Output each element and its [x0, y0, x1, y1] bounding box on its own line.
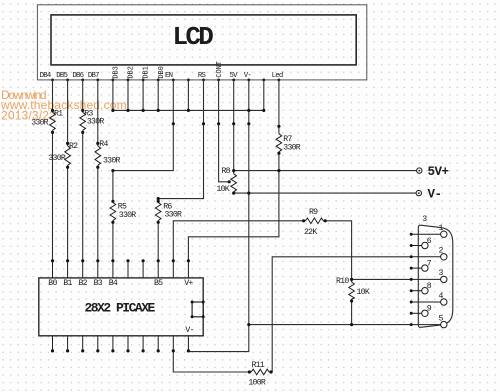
svg-text:B5: B5 [154, 279, 163, 288]
svg-text:DB1: DB1 [143, 66, 151, 78]
svg-text:B0: B0 [48, 279, 57, 288]
PICAXE bottom pin dots [51, 349, 190, 352]
wire R5 bottom to PICAXE B4 [112, 221, 114, 261]
svg-text:330R: 330R [31, 119, 48, 128]
resistor R5 330R [110, 203, 116, 221]
wire ground line V- to DB9 pin5 [249, 324, 411, 326]
resistor R11 100R [251, 369, 269, 375]
svg-text:B2: B2 [79, 279, 88, 288]
wire R7 bottom to 5V rail junction [278, 152, 280, 171]
watermark text [0, 88, 127, 122]
LCD pin labels DB4 DB5 DB6 DB7 [40, 72, 100, 80]
svg-text:R8: R8 [222, 167, 231, 176]
svg-text:R11: R11 [252, 361, 265, 370]
PICAXE bottom pin stubs [53, 336, 189, 351]
wire PICAXE bottom serial pin down to R11 [173, 351, 251, 372]
wire DB2 pin down to ground rail [127, 80, 129, 111]
wire RS pin down, left, to R6 [158, 80, 203, 203]
resistor R8 10K [231, 174, 237, 193]
svg-text:LCD: LCD [173, 22, 214, 52]
svg-text:CONT: CONT [216, 61, 224, 77]
wire R9 right to R10 top corner [323, 221, 351, 282]
R5 R6 pin-end dots [111, 197, 159, 224]
wire 5V rail down to PICAXE V+ pin [188, 171, 279, 261]
resistor R4 330R [95, 146, 101, 165]
R11 pin-end dots [248, 370, 273, 373]
connector J3 DB9 shell [418, 215, 453, 327]
wire CONT pin down and right to R8 [219, 80, 231, 182]
svg-text:5V+: 5V+ [428, 165, 449, 179]
svg-text:B4: B4 [109, 279, 118, 288]
LCD pin connection dots on box bottom edge [51, 79, 280, 82]
DB9 pin 8 [422, 282, 432, 294]
DB9 pin 4 [439, 292, 447, 305]
svg-text:10K: 10K [216, 185, 229, 194]
resistor R7 330R [276, 134, 282, 152]
node 5V rail junction dots [232, 152, 280, 173]
terminal 5V+ [417, 165, 449, 179]
wire DB1 pin down to ground rail [142, 80, 144, 111]
svg-text:V-: V- [185, 326, 193, 335]
R1 R3 pin-end dots [51, 109, 84, 134]
wire DB0 pin down to ground rail [157, 80, 159, 111]
wire 5V rail to 5V+ terminal [234, 170, 417, 172]
svg-text:330R: 330R [119, 211, 136, 220]
wire DB5 pin down to R2 [67, 80, 69, 146]
resistor R10 10K [349, 282, 355, 299]
DB9 pin 3 [439, 269, 447, 282]
R9 pin-end dots [302, 219, 327, 222]
LCD module U-LCD outer box [37, 5, 366, 80]
resistor R3 330R [80, 112, 86, 130]
wire RW pin down to ground rail [187, 80, 189, 111]
wire EN pin down, left, to R5 [113, 80, 173, 203]
node V- rail junction dots [232, 192, 250, 195]
node R10 junction dots [350, 278, 353, 326]
DB9 pin 9 [422, 305, 432, 317]
DB9 pin 1 [439, 224, 447, 237]
svg-text:V-: V- [244, 72, 252, 80]
resistor R1 330R [50, 112, 56, 130]
svg-text:330R: 330R [103, 157, 120, 166]
svg-text:330R: 330R [87, 118, 104, 127]
node EN to R5 corner dot [111, 169, 114, 172]
wire Led- pin down to ground rail [263, 80, 265, 111]
wire DB7 pin down to R4 [97, 80, 99, 146]
PICAXE top pin stubs [53, 261, 189, 278]
svg-text:100R: 100R [248, 379, 265, 388]
wire 5V pin down to 5V rail junction [233, 80, 235, 174]
wire PICAXE serial pin up and right to R9 [173, 221, 305, 261]
DB9 pin 2 [439, 247, 447, 260]
svg-text:330R: 330R [165, 211, 182, 220]
wire DB3 pin down to ground rail [112, 80, 114, 111]
resistor R6 330R [155, 203, 161, 221]
wire R3 bottom to PICAXE B2 [82, 130, 84, 260]
wire R4 bottom to PICAXE B3 [97, 165, 99, 260]
LCD pin end dots EN RS CONT 5V V- Led [172, 122, 281, 128]
ground rail junction dots DB3 DB2 DB1 DB0 RW V- Led- [111, 109, 265, 112]
wire ground rail DB3-DB0-RW-V- to Led- [113, 109, 264, 111]
PICAXE pin labels [48, 279, 193, 335]
IC U1 28X2 PICAXE box [39, 278, 203, 336]
svg-text:R1: R1 [54, 109, 63, 118]
DB9 pin 7 [422, 259, 432, 271]
PICAXE programming connector box [191, 301, 205, 319]
svg-text:2013/3/22: 2013/3/22 [1, 108, 56, 122]
svg-text:V-: V- [428, 188, 442, 202]
resistor R2 330R [65, 146, 71, 165]
svg-text:330R: 330R [48, 154, 65, 163]
wire DB6 pin down to R3 [82, 80, 84, 113]
svg-text:28X2 PICAXE: 28X2 PICAXE [85, 300, 156, 315]
svg-text:22K: 22K [304, 228, 317, 237]
wire V- rail from R8 bottom to V- terminal [234, 192, 416, 194]
svg-text:DB4: DB4 [40, 72, 52, 80]
DB9 pin stubs and dots [411, 234, 440, 324]
wire V- pin down through rails to bottom [188, 80, 248, 352]
svg-text:DB5: DB5 [56, 72, 67, 80]
DB9 pin 5 [439, 314, 447, 327]
svg-text:Led: Led [272, 72, 283, 80]
svg-text:330R: 330R [283, 143, 300, 152]
node CONT to R8 dot [228, 180, 231, 183]
svg-text:V+: V+ [184, 279, 193, 288]
resistor R9 22K [305, 218, 323, 224]
svg-text:R9: R9 [309, 208, 318, 217]
wire R10 bottom to ground line [351, 299, 353, 325]
svg-text:EN: EN [165, 72, 173, 80]
wire Led pin down to R7 [278, 80, 280, 134]
wire R2 bottom to PICAXE B1 [67, 165, 69, 260]
wire R1 bottom to PICAXE B0 [52, 130, 54, 260]
svg-text:DB3: DB3 [113, 66, 121, 78]
svg-text:R10: R10 [336, 277, 349, 286]
svg-text:B1: B1 [63, 279, 72, 288]
svg-text:10K: 10K [357, 288, 370, 297]
svg-text:B3: B3 [94, 279, 103, 288]
PICAXE top pin dots [51, 259, 190, 262]
DB9 pin 6 [422, 237, 432, 249]
wire R6 bottom to PICAXE B5 [157, 221, 159, 261]
wire R10 node to DB9 pin3 [352, 278, 412, 280]
terminal V- [416, 188, 441, 202]
svg-text:R2: R2 [69, 142, 78, 151]
svg-text:DB2: DB2 [128, 66, 136, 78]
node ground line corner dot [247, 323, 250, 326]
LCD screen inner box [51, 15, 356, 65]
svg-text:R4: R4 [99, 140, 108, 149]
wire DB4 pin down to R1 [52, 80, 54, 113]
R2 R4 pin-end dots [66, 142, 99, 169]
wire R11 right up to DB9 pin2 [269, 257, 411, 372]
